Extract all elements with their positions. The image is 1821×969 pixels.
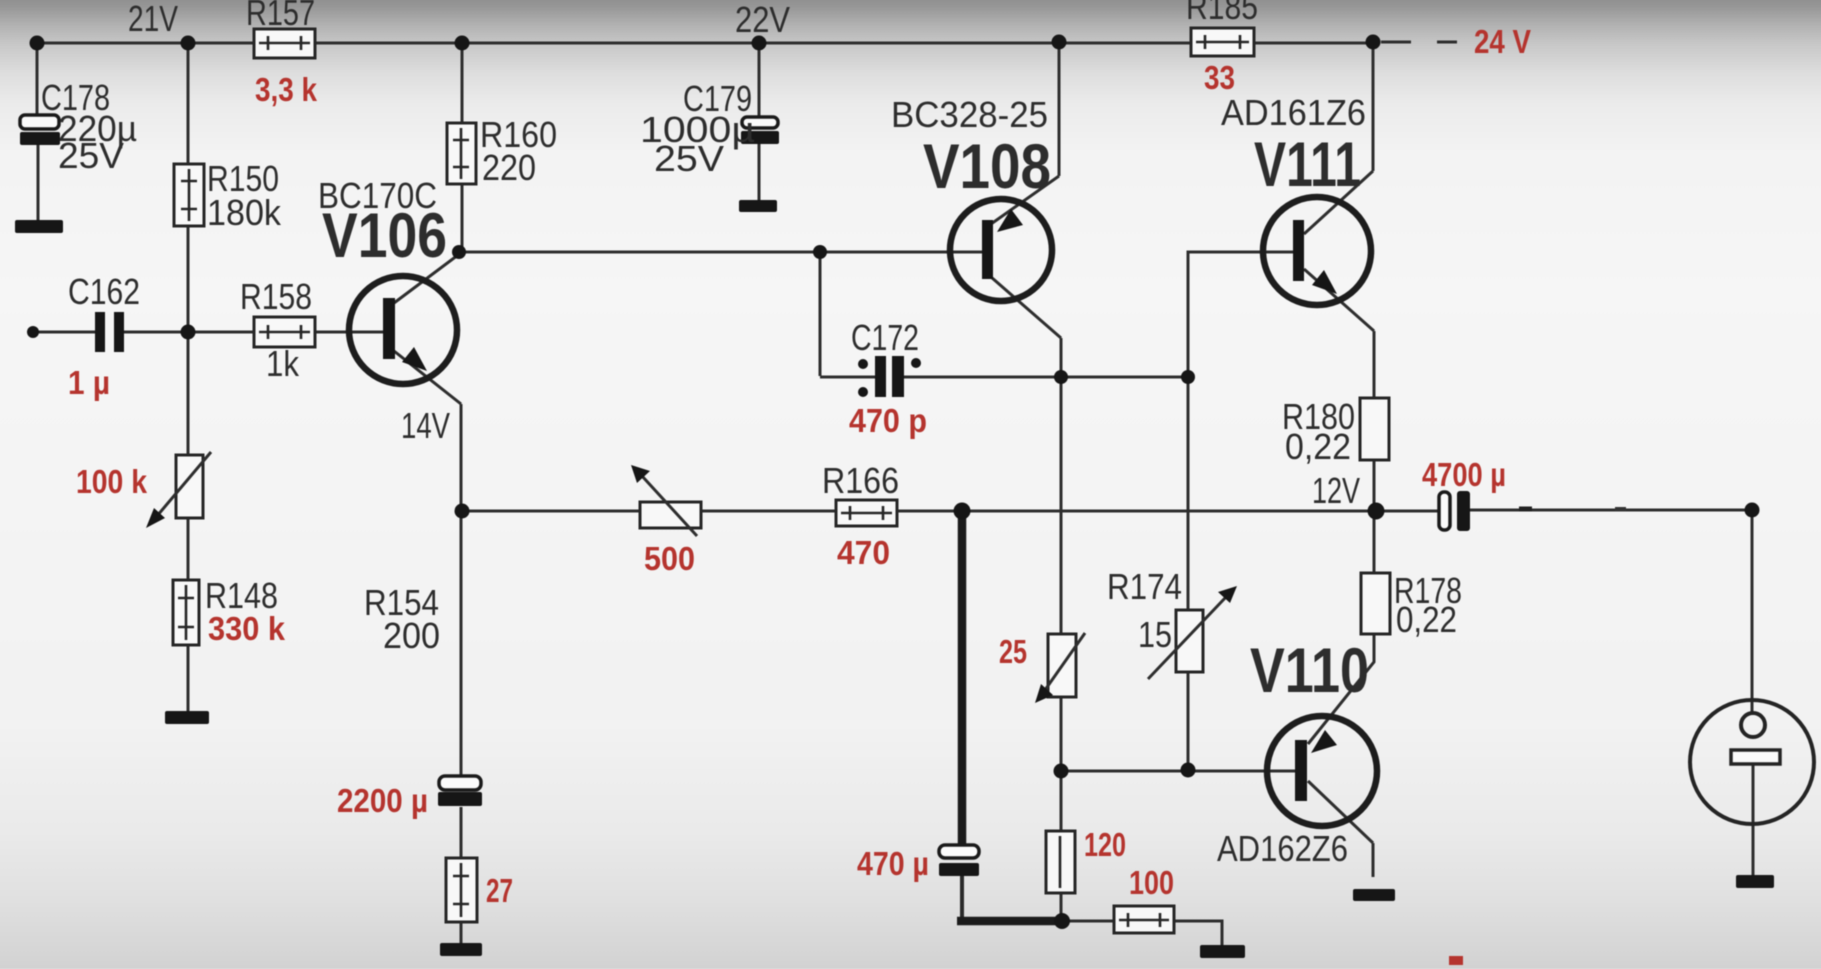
svg-text:0,22: 0,22 [1285, 426, 1351, 467]
svg-text:100: 100 [1129, 864, 1174, 901]
svg-text:2200 µ: 2200 µ [337, 782, 428, 819]
svg-text:0,22: 0,22 [1396, 599, 1457, 640]
svg-text:100 k: 100 k [76, 463, 148, 500]
svg-text:120: 120 [1084, 826, 1126, 863]
svg-text:V108: V108 [923, 132, 1051, 202]
svg-text:180k: 180k [207, 192, 282, 233]
svg-text:R174: R174 [1107, 566, 1182, 607]
svg-text:470 µ: 470 µ [857, 845, 929, 882]
svg-text:R185: R185 [1186, 0, 1258, 27]
svg-text:AD161Z6: AD161Z6 [1221, 92, 1366, 133]
svg-text:330 k: 330 k [208, 610, 286, 647]
svg-text:R166: R166 [822, 460, 899, 501]
svg-text:200: 200 [383, 615, 440, 656]
svg-text:470: 470 [837, 534, 890, 571]
svg-text:500: 500 [644, 540, 695, 577]
svg-text:AD162Z6: AD162Z6 [1217, 828, 1348, 869]
svg-text:25: 25 [999, 633, 1027, 670]
svg-text:22V: 22V [735, 0, 790, 40]
svg-text:R157: R157 [246, 0, 315, 33]
svg-text:BC328-25: BC328-25 [891, 94, 1048, 135]
svg-text:V106: V106 [322, 201, 447, 271]
svg-text:V110: V110 [1250, 636, 1369, 706]
svg-text:27: 27 [486, 872, 513, 909]
svg-text:15: 15 [1138, 614, 1172, 655]
svg-text:1k: 1k [266, 343, 300, 384]
svg-text:470 p: 470 p [849, 402, 927, 439]
svg-text:12V: 12V [1312, 470, 1360, 511]
svg-text:33: 33 [1204, 59, 1235, 96]
svg-text:C172: C172 [851, 317, 919, 358]
svg-text:220: 220 [482, 147, 536, 188]
svg-text:3,3 k: 3,3 k [255, 71, 318, 108]
svg-text:25V: 25V [58, 135, 124, 176]
svg-text:14V: 14V [401, 405, 450, 446]
svg-text:25V: 25V [654, 138, 724, 179]
svg-text:4700 µ: 4700 µ [1422, 456, 1506, 493]
svg-text:1 µ: 1 µ [68, 364, 110, 401]
svg-text:V111: V111 [1254, 130, 1361, 200]
svg-text:24 V: 24 V [1474, 23, 1531, 60]
svg-text:21V: 21V [128, 0, 178, 39]
svg-text:R158: R158 [240, 276, 312, 317]
svg-text:C162: C162 [68, 271, 140, 312]
